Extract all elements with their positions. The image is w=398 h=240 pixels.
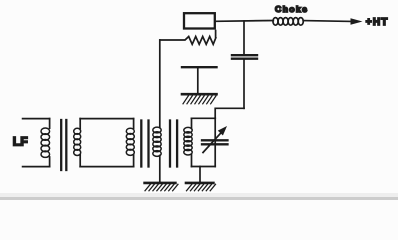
node junction top rail / C1 — [243, 21, 245, 54]
inductor T1 primary loops — [41, 128, 50, 157]
inductor T2 primary loops — [126, 128, 134, 155]
inductor C (tuned coil) lead — [191, 118, 193, 166]
wire jog to tuned loop — [215, 108, 244, 118]
wire coil B down to ground 1 — [159, 156, 161, 182]
ground A bar — [182, 93, 217, 96]
ground A hatch — [183, 96, 216, 104]
transformer T1 core — [60, 120, 62, 170]
wire C1 down — [243, 60, 245, 108]
svg-text:Choke: Choke — [275, 4, 308, 14]
bottom border band — [0, 193, 398, 197]
variable capacitor VC plates — [202, 139, 228, 141]
ground 2 bar — [186, 182, 213, 185]
transformer T2 core — [140, 121, 142, 167]
resistor R1 (anode load box) — [184, 13, 215, 28]
capacitor C1 plates — [232, 54, 257, 56]
wire T1 left coil top stub — [23, 118, 50, 120]
resistor R2 (zigzag grid leak) — [160, 37, 216, 45]
inductor T1 secondary lead — [79, 119, 81, 167]
capacitor C2 stem — [197, 68, 199, 93]
choke L1 coil — [273, 18, 303, 26]
variable capacitor arrow — [203, 133, 221, 153]
wire stub to ground 2 — [199, 167, 201, 182]
wire top rail from R1 to choke — [216, 20, 273, 23]
inductor T1 secondary loops — [74, 128, 81, 155]
ground 1 bar — [145, 182, 176, 185]
wire tuned loop right side — [214, 118, 216, 166]
capacitor C2 top plate — [182, 66, 217, 68]
wire T1-T2 loop top — [80, 118, 133, 120]
inductor T2 primary lead — [133, 119, 135, 167]
inductor B (anode coil) loops — [153, 127, 161, 156]
transformer T3 core — [169, 121, 171, 167]
inductor C loops — [184, 127, 192, 155]
wire T1-T2 loop bottom — [80, 166, 133, 168]
wire choke to arrow — [303, 20, 351, 23]
svg-text:+HT: +HT — [366, 17, 389, 28]
svg-text:LF: LF — [13, 134, 28, 148]
wire riser from R2 down to coil B — [159, 40, 161, 128]
wire R2 right end up to R1 — [215, 31, 217, 38]
ground 1 hatch — [145, 184, 178, 191]
ground 2 hatch — [187, 184, 216, 191]
inductor T1 primary lead — [49, 119, 51, 167]
wire T1 left coil bottom stub — [23, 166, 50, 168]
wire tuned loop bottom — [192, 166, 216, 168]
arrowhead to +HT — [351, 18, 363, 25]
wire tuned loop top stub — [192, 117, 216, 119]
